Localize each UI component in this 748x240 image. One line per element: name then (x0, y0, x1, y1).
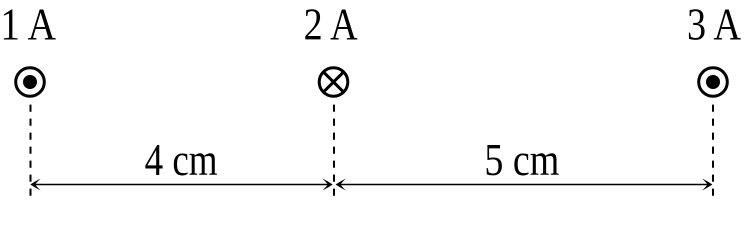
dimension line 4 cm (double arrow between wire1 and wire2) (30, 179, 332, 191)
dashed extension line below wire 3 (712, 105, 714, 198)
svg-text:4 cm: 4 cm (145, 135, 218, 185)
svg-text:1 A: 1 A (0, 0, 56, 49)
wire 1 symbol: current out of page (circle with dot) (16, 68, 45, 97)
svg-text:2 A: 2 A (304, 0, 358, 49)
svg-text:5 cm: 5 cm (484, 135, 559, 185)
svg-text:3 A: 3 A (687, 0, 741, 49)
wire 3 symbol: current out of page (circle with dot) (699, 68, 728, 97)
wire 2 symbol: current into page (circle with cross) (319, 68, 348, 97)
dashed extension line below wire 1 (30, 105, 32, 198)
dimension line 5 cm (double arrow between wire2 and wire3) (336, 179, 713, 191)
dashed extension line below wire 2 (333, 105, 335, 198)
